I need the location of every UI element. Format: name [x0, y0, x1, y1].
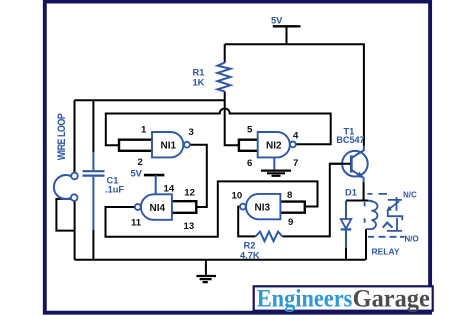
- svg-text:14: 14: [164, 183, 175, 194]
- svg-text:D1: D1: [345, 188, 357, 198]
- svg-text:12: 12: [184, 187, 195, 198]
- svg-text:.1uF: .1uF: [105, 185, 124, 195]
- svg-text:NI2: NI2: [266, 140, 282, 151]
- svg-text:11: 11: [131, 217, 142, 228]
- svg-text:9: 9: [288, 217, 293, 228]
- svg-text:4: 4: [293, 131, 299, 142]
- svg-text:NI1: NI1: [161, 140, 177, 151]
- svg-text:2: 2: [138, 157, 143, 168]
- svg-text:Garage: Garage: [353, 286, 430, 313]
- svg-text:8: 8: [287, 190, 293, 201]
- svg-text:NI3: NI3: [255, 203, 271, 214]
- svg-text:1: 1: [141, 125, 147, 136]
- svg-text:5V: 5V: [131, 169, 143, 179]
- svg-text:5V: 5V: [271, 16, 283, 26]
- svg-text:Engineers: Engineers: [257, 286, 353, 313]
- svg-text:R2: R2: [244, 241, 256, 251]
- svg-text:1K: 1K: [193, 78, 205, 88]
- svg-text:N/O: N/O: [405, 235, 419, 244]
- svg-text:6: 6: [247, 158, 252, 169]
- svg-text:7: 7: [293, 158, 298, 169]
- svg-text:WIRE LOOP: WIRE LOOP: [56, 113, 68, 160]
- svg-text:NI4: NI4: [150, 203, 166, 214]
- svg-text:R1: R1: [193, 68, 205, 78]
- svg-text:N/C: N/C: [403, 191, 417, 200]
- svg-text:3: 3: [189, 127, 194, 138]
- svg-text:4.7K: 4.7K: [240, 250, 260, 260]
- svg-text:13: 13: [184, 221, 195, 232]
- svg-text:RELAY: RELAY: [372, 247, 400, 257]
- svg-text:5: 5: [247, 125, 253, 136]
- svg-text:10: 10: [232, 190, 243, 201]
- svg-text:BC547: BC547: [336, 135, 364, 145]
